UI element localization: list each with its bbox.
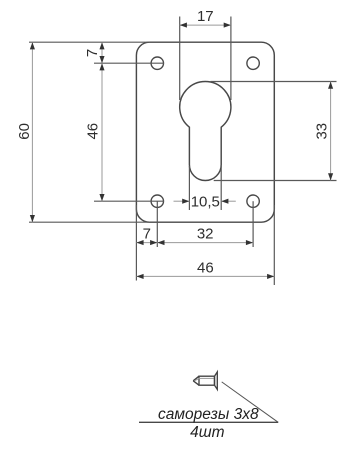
left edge vertical extension below plate <box>135 205 137 281</box>
dim 46 left dimension line <box>101 63 103 201</box>
dim 17 extension line left <box>179 17 181 101</box>
keyhole euro profile <box>180 82 231 181</box>
plate top edge extension to left <box>29 41 150 43</box>
dim 46 bottom dimension line <box>136 275 274 277</box>
svg-text:17: 17 <box>197 8 214 25</box>
dim 46 bottom arrow left <box>136 274 143 279</box>
slot extension line right <box>220 166 222 210</box>
right edge vertical extension below plate <box>273 205 275 285</box>
dim 32 arrow right <box>246 240 253 245</box>
hole bottom-right <box>247 195 259 207</box>
svg-text:4шт: 4шт <box>190 424 224 441</box>
keyhole bottom extension line <box>214 180 337 182</box>
dim 33 arrow bottom <box>328 173 333 180</box>
dim 60 dimension line <box>31 42 33 222</box>
screw shaft <box>199 376 215 385</box>
leader line <box>222 382 279 422</box>
hole top-left <box>151 57 163 69</box>
top hole centerline extension <box>94 62 164 64</box>
bottom-right hole vertical extension <box>252 201 254 247</box>
dim 7 top arrow up <box>99 42 104 49</box>
dim 17 dimension line <box>180 24 231 26</box>
dim 46 bottom arrow right <box>267 274 274 279</box>
screw tip <box>193 376 199 385</box>
svg-text:7: 7 <box>143 225 151 242</box>
dim 7 top arrow down <box>99 56 104 63</box>
svg-text:7: 7 <box>84 49 101 57</box>
dim 10,5 right arrow with tail <box>221 200 236 202</box>
svg-text:46: 46 <box>197 260 214 277</box>
hole bottom-left <box>151 195 163 207</box>
dim 33 dimension line <box>330 82 332 181</box>
dim 32 arrow left <box>157 240 164 245</box>
svg-text:46: 46 <box>85 123 102 140</box>
slot extension line left <box>188 166 190 210</box>
dim 7 bottom arrow right <box>150 240 157 245</box>
dim 60 arrow top <box>30 42 35 49</box>
screw tip inner line <box>195 378 199 380</box>
svg-text:32: 32 <box>197 225 214 242</box>
dim 10,5 left arrow with tail <box>174 200 190 202</box>
dim 17 extension line right <box>230 17 232 101</box>
dim 7 bottom arrow left <box>136 240 143 245</box>
svg-text:60: 60 <box>16 123 33 140</box>
bottom-left hole vertical extension <box>156 201 158 247</box>
svg-text:10,5: 10,5 <box>191 193 220 210</box>
plate outline <box>136 42 274 222</box>
dim 46 left arrow bottom <box>99 194 104 201</box>
dim 17 arrow left <box>180 23 187 28</box>
keyhole top extension line <box>211 81 337 83</box>
dim 17 arrow right <box>224 23 231 28</box>
bottom hole centerline extension <box>94 200 164 202</box>
dim 33 arrow top <box>328 82 333 89</box>
svg-text:саморезы 3х8: саморезы 3х8 <box>158 406 259 423</box>
hole top-right <box>247 57 259 69</box>
dim 46 left arrow top <box>99 63 104 70</box>
screw head <box>215 372 218 390</box>
dim 7 bottom dimension line <box>136 242 157 244</box>
dim 7 top dimension line <box>101 42 103 63</box>
dim 32 dimension line <box>157 242 253 244</box>
plate bottom edge extension to left <box>29 221 150 223</box>
svg-text:33: 33 <box>313 123 330 140</box>
dim 60 arrow bottom <box>30 215 35 222</box>
screw shaft inner line <box>199 377 214 379</box>
label rule <box>139 421 278 423</box>
